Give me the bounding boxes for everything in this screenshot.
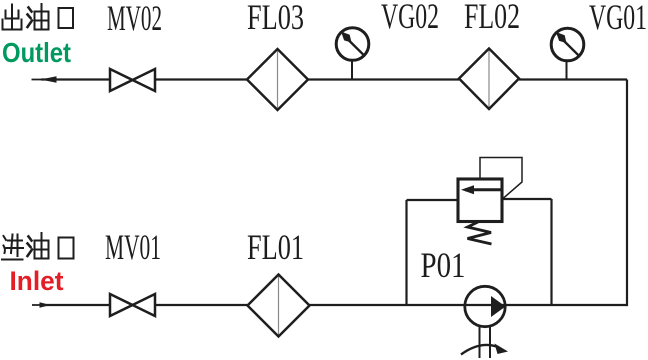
wire MV01 to FL01 xyxy=(155,304,248,306)
svg-text:MV01: MV01 xyxy=(105,227,161,267)
svg-text:VG02: VG02 xyxy=(381,0,439,36)
pump triangle xyxy=(491,296,506,317)
svg-text:Inlet: Inlet xyxy=(10,266,64,296)
label 进油口 xyxy=(2,233,74,260)
relief valve pilot line xyxy=(480,158,522,199)
pump shaft xyxy=(480,327,491,359)
filter FL02 xyxy=(459,49,519,110)
gauge VG02 xyxy=(336,28,369,80)
wire inlet to MV01 xyxy=(40,304,110,306)
wire FL01 to right corner (through pump) xyxy=(310,304,628,306)
svg-text:FL01: FL01 xyxy=(247,227,304,267)
filter FL01 xyxy=(248,275,310,337)
wire right vertical xyxy=(626,80,628,307)
svg-text:Outlet: Outlet xyxy=(2,37,71,68)
outlet arrow xyxy=(32,76,61,83)
wire FL02 to right corner xyxy=(519,78,627,80)
wire loop right vertical xyxy=(550,199,552,305)
wire loop top left xyxy=(407,199,459,201)
pump P01 circle xyxy=(465,286,505,326)
wire FL03 to FL02 xyxy=(308,78,459,80)
relief valve spring xyxy=(468,222,492,244)
relief valve arrow xyxy=(461,185,501,194)
inlet arrow xyxy=(32,302,58,308)
wire loop left vertical xyxy=(405,200,407,305)
svg-text:MV02: MV02 xyxy=(107,0,162,38)
wire MV02 to FL03 xyxy=(155,78,247,80)
wire outlet to MV02 xyxy=(41,78,110,80)
filter FL03 xyxy=(247,49,308,110)
svg-text:VG01: VG01 xyxy=(589,0,647,37)
relief valve body xyxy=(458,179,502,222)
gauge VG01 xyxy=(551,28,584,79)
svg-text:FL02: FL02 xyxy=(464,0,520,36)
label 出油口 xyxy=(3,4,74,30)
pump rotation arrow xyxy=(461,344,508,355)
svg-text:P01: P01 xyxy=(421,245,466,285)
wire loop top right xyxy=(502,198,552,200)
valve MV01 xyxy=(110,294,155,316)
valve MV02 xyxy=(110,69,155,91)
svg-text:FL03: FL03 xyxy=(247,0,304,37)
